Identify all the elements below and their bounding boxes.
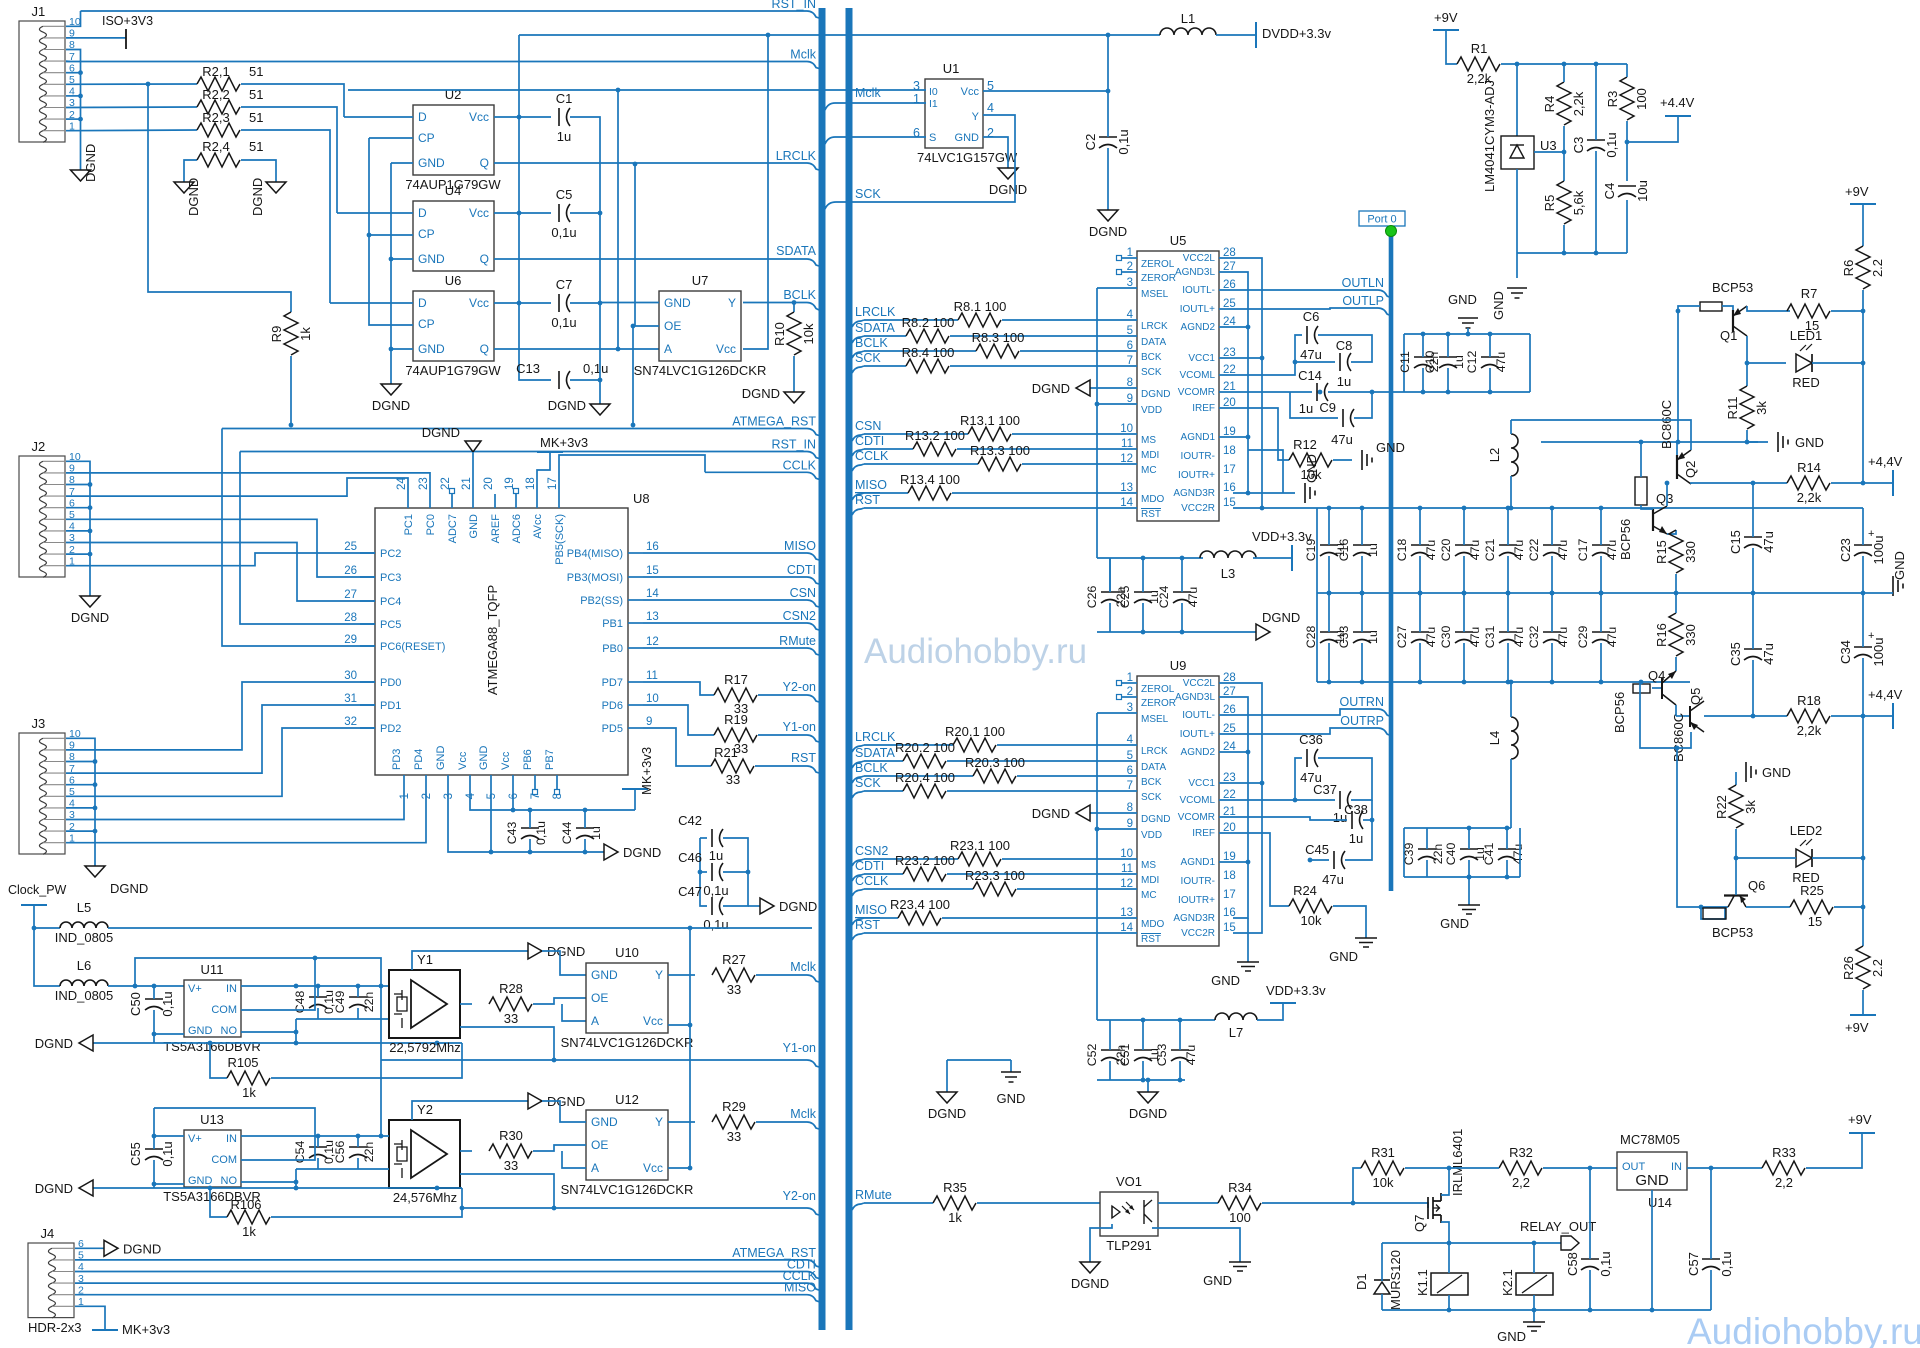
wire bbox=[66, 784, 95, 786]
junction bbox=[1594, 62, 1599, 67]
resistor R30 bbox=[489, 1144, 532, 1158]
svg-text:47u: 47u bbox=[1184, 1045, 1198, 1066]
wire bbox=[570, 379, 600, 381]
svg-text:AGND1: AGND1 bbox=[1181, 432, 1216, 443]
ground DGND bbox=[1089, 210, 1127, 239]
capacitor C7 bbox=[551, 277, 576, 330]
optocoupler VO1 TLP291 bbox=[1100, 1174, 1158, 1253]
wire bbox=[1651, 1190, 1653, 1310]
resistor R31 bbox=[1361, 1161, 1404, 1175]
svg-text:PB1: PB1 bbox=[602, 618, 623, 630]
svg-text:Vcc: Vcc bbox=[469, 110, 489, 124]
svg-text:ATMEGA88_TQFP: ATMEGA88_TQFP bbox=[485, 585, 500, 695]
wire bbox=[153, 1160, 155, 1188]
capacitor C52 bbox=[1085, 1044, 1128, 1067]
svg-text:GND: GND bbox=[997, 1091, 1026, 1106]
svg-text:0,1u: 0,1u bbox=[1604, 132, 1619, 157]
junction bbox=[1466, 332, 1471, 337]
capacitor C17 bbox=[1576, 539, 1619, 562]
wire bbox=[1328, 593, 1330, 632]
capacitor C48 bbox=[293, 990, 336, 1014]
svg-text:U12: U12 bbox=[615, 1092, 639, 1107]
junction bbox=[1106, 33, 1111, 38]
wire DVDD supply bbox=[519, 34, 1160, 36]
wire DGND rail U13 bbox=[93, 1187, 462, 1189]
svg-text:1u: 1u bbox=[1366, 630, 1380, 644]
junction bbox=[1676, 440, 1681, 445]
power MK+3v3 bottom bbox=[622, 747, 654, 795]
wire bbox=[1752, 483, 1754, 537]
svg-text:RST: RST bbox=[855, 918, 880, 932]
resistor R9 bbox=[269, 312, 313, 355]
wire bbox=[1219, 326, 1248, 328]
svg-text:IND_0805: IND_0805 bbox=[55, 988, 114, 1003]
svg-text:LRCLK: LRCLK bbox=[855, 730, 896, 744]
svg-text:C38: C38 bbox=[1344, 802, 1368, 817]
svg-text:SDATA: SDATA bbox=[855, 321, 895, 335]
junction bbox=[1106, 89, 1111, 94]
svg-text:C7: C7 bbox=[556, 277, 573, 292]
svg-text:28: 28 bbox=[344, 612, 357, 624]
wire bbox=[1463, 508, 1465, 545]
wire bbox=[1333, 459, 1352, 461]
svg-text:C39: C39 bbox=[1402, 843, 1416, 866]
svg-text:DGND: DGND bbox=[35, 1181, 73, 1196]
capacitor C13 bbox=[516, 361, 608, 389]
svg-text:DGND: DGND bbox=[35, 1036, 73, 1051]
wire bbox=[153, 1136, 155, 1149]
svg-text:1u: 1u bbox=[1366, 543, 1380, 557]
wire bbox=[1862, 556, 1864, 593]
svg-text:I1: I1 bbox=[929, 98, 938, 110]
svg-text:330: 330 bbox=[1683, 541, 1698, 563]
capacitor C18 bbox=[1395, 539, 1438, 562]
junction bbox=[316, 1134, 321, 1139]
junction bbox=[356, 984, 361, 989]
svg-text:IOUTL-: IOUTL- bbox=[1182, 710, 1215, 721]
svg-text:GND: GND bbox=[1892, 551, 1907, 580]
svg-text:32: 32 bbox=[344, 716, 357, 728]
svg-text:C40: C40 bbox=[1444, 843, 1458, 866]
wire bbox=[1419, 556, 1421, 593]
wire bbox=[337, 212, 413, 214]
svg-text:SN74LVC1G126DCKR: SN74LVC1G126DCKR bbox=[561, 1035, 694, 1050]
power +9V Q1 bbox=[1845, 184, 1876, 204]
wire bbox=[490, 789, 492, 852]
svg-text:NO: NO bbox=[221, 1175, 238, 1187]
svg-text:GND: GND bbox=[468, 514, 480, 539]
svg-text:R23.2 100: R23.2 100 bbox=[895, 853, 955, 868]
wire bbox=[1109, 558, 1111, 592]
svg-text:MSEL: MSEL bbox=[1141, 714, 1169, 725]
svg-text:BCP56: BCP56 bbox=[1618, 519, 1633, 560]
wire bbox=[1506, 828, 1508, 849]
wire bbox=[1747, 430, 1768, 442]
ground DGND bbox=[989, 168, 1027, 197]
resistor R19 bbox=[714, 728, 757, 742]
svg-text:RST_IN: RST_IN bbox=[772, 438, 816, 452]
ground DGND bbox=[372, 384, 410, 413]
svg-text:Q1: Q1 bbox=[1720, 328, 1737, 343]
svg-text:IOUTL+: IOUTL+ bbox=[1180, 729, 1215, 740]
junction bbox=[1506, 591, 1511, 596]
svg-text:R1: R1 bbox=[1471, 41, 1488, 56]
svg-text:C16: C16 bbox=[1337, 539, 1351, 562]
svg-text:10: 10 bbox=[646, 693, 659, 705]
wire Q3 collector bbox=[1666, 483, 1668, 506]
svg-text:Q3: Q3 bbox=[1656, 491, 1673, 506]
svg-text:2,2: 2,2 bbox=[1775, 1175, 1793, 1190]
svg-text:R20.1 100: R20.1 100 bbox=[945, 724, 1005, 739]
capacitor C41 bbox=[1482, 843, 1525, 866]
junction bbox=[152, 984, 157, 989]
bus line Port 0 bbox=[1389, 236, 1394, 891]
wire bbox=[1097, 1079, 1185, 1081]
inductor L5 bbox=[55, 900, 114, 945]
junction bbox=[1699, 905, 1704, 910]
ground DGND bbox=[71, 144, 99, 182]
svg-text:GND: GND bbox=[1440, 916, 1469, 931]
svg-text:AGND3L: AGND3L bbox=[1175, 692, 1215, 703]
svg-text:17: 17 bbox=[1223, 464, 1236, 476]
resistor R17 bbox=[714, 688, 757, 702]
svg-text:Audiohobby.ru: Audiohobby.ru bbox=[1687, 1311, 1920, 1348]
wire bbox=[66, 473, 430, 494]
svg-text:Q2: Q2 bbox=[1683, 461, 1698, 478]
wire OUTLP bbox=[1219, 308, 1378, 309]
svg-text:V+: V+ bbox=[188, 1133, 202, 1145]
wire bbox=[1426, 860, 1428, 877]
wire relay top rail bbox=[1382, 1242, 1561, 1244]
svg-text:CSN: CSN bbox=[790, 586, 816, 600]
svg-text:1k: 1k bbox=[242, 1085, 256, 1100]
junction bbox=[583, 808, 588, 813]
svg-text:1u: 1u bbox=[1299, 401, 1313, 416]
capacitor C11 bbox=[1398, 351, 1441, 373]
wire bbox=[1735, 772, 1737, 785]
junction bbox=[1562, 251, 1567, 256]
svg-text:L2: L2 bbox=[1487, 448, 1502, 462]
wire U2/U4/U6 ground bbox=[391, 162, 413, 164]
junction bbox=[1447, 1166, 1452, 1171]
svg-text:DGND: DGND bbox=[110, 881, 148, 896]
svg-text:R29: R29 bbox=[722, 1099, 746, 1114]
svg-text:TLP291: TLP291 bbox=[1106, 1238, 1152, 1253]
wire DGND rail U11 bbox=[93, 1042, 462, 1044]
wire bbox=[700, 871, 707, 873]
wire Mclk from U12.Y bbox=[668, 1121, 695, 1123]
wire Q6 collector bbox=[1735, 858, 1737, 895]
junction bbox=[208, 1041, 213, 1046]
junction bbox=[1462, 680, 1467, 685]
wire bbox=[357, 1008, 359, 1019]
svg-text:18: 18 bbox=[525, 477, 537, 490]
svg-text:COM: COM bbox=[211, 1004, 237, 1016]
resistor R2.1 bbox=[197, 77, 240, 91]
wire MISO bbox=[852, 918, 864, 925]
wire SDATA from U4.Q bbox=[494, 258, 807, 260]
wire bbox=[330, 302, 413, 304]
wire bbox=[756, 975, 819, 982]
capacitor C51 bbox=[1118, 1044, 1161, 1067]
svg-text:IOUTR-: IOUTR- bbox=[1181, 876, 1215, 887]
svg-text:10k: 10k bbox=[1373, 1175, 1394, 1190]
svg-text:1k: 1k bbox=[298, 327, 313, 341]
diode D1 MURS120 bbox=[1354, 1250, 1403, 1310]
junction bbox=[435, 1186, 440, 1191]
svg-text:BCLK: BCLK bbox=[855, 336, 888, 350]
junction bbox=[78, 94, 83, 99]
wire bbox=[1142, 1020, 1144, 1050]
capacitor C19 bbox=[1304, 539, 1347, 562]
junction bbox=[379, 984, 384, 989]
wire bbox=[66, 553, 375, 566]
wire bbox=[1595, 151, 1597, 253]
wire bbox=[472, 452, 474, 494]
svg-text:C37: C37 bbox=[1313, 782, 1337, 797]
svg-text:R7: R7 bbox=[1801, 286, 1818, 301]
junction bbox=[1141, 556, 1146, 561]
ground DGND bbox=[937, 1092, 957, 1103]
svg-text:R26: R26 bbox=[1841, 956, 1856, 980]
svg-text:SCK: SCK bbox=[1141, 367, 1162, 378]
svg-text:R17: R17 bbox=[724, 672, 748, 687]
svg-text:PC6(RESET): PC6(RESET) bbox=[380, 641, 445, 653]
svg-text:51: 51 bbox=[249, 139, 263, 154]
svg-text:MK+3v3: MK+3v3 bbox=[639, 747, 654, 795]
transistor Q4 BCP56 bbox=[1612, 668, 1676, 733]
wire bbox=[1551, 508, 1553, 545]
svg-text:13: 13 bbox=[646, 611, 659, 623]
svg-text:PD6: PD6 bbox=[602, 700, 623, 712]
wire bbox=[66, 761, 95, 763]
svg-text:R33: R33 bbox=[1772, 1145, 1796, 1160]
svg-text:1u: 1u bbox=[1452, 355, 1466, 369]
svg-text:RST: RST bbox=[855, 493, 880, 507]
svg-text:BCLK: BCLK bbox=[783, 288, 816, 302]
resistor R22 bbox=[1714, 785, 1758, 828]
junction bbox=[1599, 506, 1604, 511]
wire bbox=[1563, 126, 1565, 181]
svg-text:11: 11 bbox=[646, 670, 658, 682]
junction bbox=[1751, 481, 1756, 486]
junction bbox=[78, 117, 83, 122]
junction bbox=[1751, 714, 1756, 719]
wire BCLK from U7.Y bbox=[743, 302, 794, 304]
wire bbox=[108, 927, 812, 929]
svg-text:Q7: Q7 bbox=[1412, 1215, 1427, 1232]
wire bbox=[519, 35, 551, 380]
svg-text:DGND: DGND bbox=[928, 1106, 966, 1121]
junction bbox=[1421, 332, 1426, 337]
resistor R13.4 bbox=[908, 486, 951, 500]
svg-text:GND: GND bbox=[1635, 1172, 1669, 1189]
wire bbox=[1179, 1020, 1181, 1050]
svg-text:C45: C45 bbox=[1305, 842, 1329, 857]
junction bbox=[598, 301, 603, 306]
svg-text:15: 15 bbox=[646, 565, 659, 577]
junction bbox=[1447, 1308, 1452, 1313]
wire bbox=[75, 1247, 104, 1249]
resistor R105 bbox=[227, 1071, 270, 1085]
svg-text:U4: U4 bbox=[445, 183, 462, 198]
inductor L4 bbox=[1487, 717, 1518, 759]
capacitor C16 bbox=[1337, 539, 1380, 562]
svg-text:C13: C13 bbox=[516, 361, 540, 376]
capacitor C40 bbox=[1444, 843, 1487, 866]
svg-text:OUTRP: OUTRP bbox=[1340, 714, 1384, 728]
capacitor C32 bbox=[1527, 626, 1570, 649]
junction bbox=[1246, 435, 1251, 440]
wire bbox=[295, 1019, 297, 1043]
transistor Q1 BCP53 bbox=[1700, 280, 1753, 343]
svg-text:Vcc: Vcc bbox=[961, 86, 980, 98]
wire bbox=[643, 705, 714, 735]
wire bbox=[947, 760, 1137, 762]
svg-text:DGND: DGND bbox=[250, 178, 265, 216]
wire bbox=[66, 789, 404, 820]
ground GND bbox=[1440, 905, 1480, 931]
wire RST U9 bbox=[852, 933, 864, 940]
wire U11 top loop bbox=[135, 958, 381, 1136]
power +9V regulator bbox=[1848, 1112, 1875, 1133]
junction bbox=[1260, 356, 1265, 361]
svg-text:22n: 22n bbox=[1431, 844, 1445, 865]
svg-text:12: 12 bbox=[646, 636, 659, 648]
capacitor C8 bbox=[1336, 338, 1353, 389]
wire bbox=[723, 871, 748, 873]
svg-text:VCOML: VCOML bbox=[1179, 795, 1215, 806]
svg-text:Y: Y bbox=[655, 1115, 663, 1129]
wire bbox=[1419, 508, 1421, 545]
svg-text:HDR-2x3: HDR-2x3 bbox=[28, 1320, 81, 1335]
wire bbox=[1676, 442, 1678, 455]
wire bbox=[584, 810, 586, 828]
wire bbox=[537, 452, 550, 494]
flip-flop U6 bbox=[405, 273, 501, 378]
analog switch U13 bbox=[163, 1112, 261, 1204]
svg-text:51: 51 bbox=[249, 87, 263, 102]
svg-text:47u: 47u bbox=[1424, 540, 1438, 561]
ground DGND bbox=[1032, 805, 1090, 821]
wire Mclk bbox=[66, 62, 819, 69]
svg-text:OE: OE bbox=[591, 1138, 608, 1152]
svg-text:R106: R106 bbox=[230, 1197, 261, 1212]
crystal oscillator Y2 24,576Mhz bbox=[389, 1102, 460, 1205]
svg-text:U13: U13 bbox=[200, 1112, 224, 1127]
svg-text:Y2: Y2 bbox=[417, 1102, 433, 1117]
svg-text:U10: U10 bbox=[615, 945, 639, 960]
svg-text:DATA: DATA bbox=[1141, 762, 1167, 773]
no-connect ADC7 bbox=[450, 489, 455, 494]
svg-text:+9V: +9V bbox=[1434, 10, 1458, 25]
svg-text:L7: L7 bbox=[1229, 1025, 1243, 1040]
wire bbox=[793, 303, 795, 313]
svg-text:GND: GND bbox=[1211, 973, 1240, 988]
ground GND bbox=[1892, 551, 1907, 596]
svg-text:Q: Q bbox=[480, 342, 489, 356]
DAC U9 bbox=[1137, 658, 1219, 946]
svg-text:R9: R9 bbox=[269, 326, 284, 343]
wire Q6 base loop bbox=[1701, 907, 1725, 919]
svg-text:0,1u: 0,1u bbox=[534, 821, 548, 845]
wire bbox=[977, 1202, 1100, 1204]
transistor Q7 IRLML6401 bbox=[1412, 1129, 1465, 1232]
wire bbox=[643, 728, 711, 766]
svg-text:C23: C23 bbox=[1838, 538, 1853, 562]
svg-text:+9V: +9V bbox=[1848, 1112, 1872, 1127]
wire base rail bbox=[1541, 441, 1758, 443]
svg-text:VCOMR: VCOMR bbox=[1178, 387, 1215, 398]
svg-text:DGND: DGND bbox=[623, 845, 661, 860]
wire bbox=[570, 117, 600, 404]
inductor L1 bbox=[1160, 11, 1216, 35]
svg-text:C50: C50 bbox=[128, 992, 143, 1016]
wire COM U11 bbox=[241, 958, 315, 1010]
wire bbox=[1020, 350, 1137, 352]
crystal oscillator Y1 22,5792Mhz bbox=[389, 952, 461, 1055]
junction bbox=[792, 300, 797, 305]
svg-text:26: 26 bbox=[344, 565, 357, 577]
inductor L6 bbox=[55, 958, 114, 1003]
wire Y1-on bbox=[758, 735, 819, 742]
wire bbox=[1248, 450, 1283, 493]
svg-text:SCK: SCK bbox=[855, 187, 881, 201]
junction bbox=[517, 115, 522, 120]
wire bbox=[1404, 876, 1520, 878]
junction bbox=[1639, 680, 1644, 685]
svg-text:J4: J4 bbox=[40, 1226, 54, 1241]
wire bbox=[290, 356, 292, 425]
junction bbox=[528, 808, 533, 813]
wire bbox=[1122, 696, 1137, 698]
wire NO U11 bbox=[241, 1031, 296, 1033]
svg-text:MC: MC bbox=[1141, 465, 1157, 476]
wire bbox=[1381, 1294, 1383, 1310]
capacitor C44 bbox=[560, 822, 603, 845]
resistor R11 bbox=[1725, 386, 1769, 429]
resistor R5 bbox=[1542, 181, 1586, 224]
wire bbox=[1253, 557, 1292, 559]
wire bbox=[66, 519, 375, 577]
svg-text:L5: L5 bbox=[77, 900, 91, 915]
svg-text:R18: R18 bbox=[1797, 693, 1821, 708]
wire bbox=[529, 810, 531, 828]
svg-text:R23.3 100: R23.3 100 bbox=[965, 868, 1025, 883]
wire bbox=[1353, 1203, 1428, 1208]
svg-text:10k: 10k bbox=[801, 323, 816, 344]
svg-text:51: 51 bbox=[249, 110, 263, 125]
svg-text:BCP56: BCP56 bbox=[1612, 692, 1627, 733]
svg-text:Y: Y bbox=[655, 968, 663, 982]
wire bbox=[1752, 548, 1754, 593]
svg-text:VO1: VO1 bbox=[1116, 1174, 1142, 1189]
svg-text:33: 33 bbox=[504, 1011, 518, 1026]
wire OUTLN bbox=[1219, 289, 1378, 291]
wire bbox=[66, 682, 375, 750]
wire bbox=[1247, 918, 1249, 962]
mux U1 bbox=[913, 61, 1018, 165]
wire CDTI bbox=[852, 449, 864, 456]
junction bbox=[1515, 62, 1520, 67]
capacitor C47 bbox=[678, 884, 729, 932]
svg-text:DGND: DGND bbox=[1141, 814, 1170, 825]
svg-text:2.2: 2.2 bbox=[1870, 259, 1885, 277]
svg-text:AGND3L: AGND3L bbox=[1175, 267, 1215, 278]
wire U12 A bbox=[562, 1151, 586, 1168]
svg-text:DGND: DGND bbox=[1141, 389, 1170, 400]
ground GND bbox=[1203, 1262, 1251, 1288]
